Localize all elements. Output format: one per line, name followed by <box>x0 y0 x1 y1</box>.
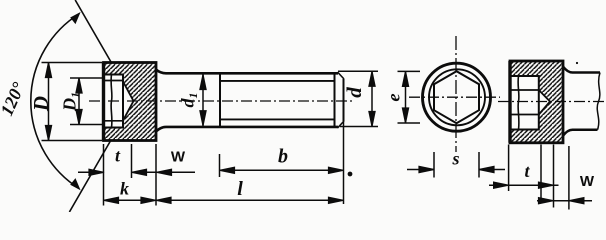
svg-text:l: l <box>237 178 243 200</box>
svg-text:t: t <box>524 161 530 181</box>
svg-text:d: d <box>342 87 366 98</box>
svg-text:W: W <box>580 173 595 190</box>
svg-text:d1: d1 <box>178 93 201 108</box>
svg-text:b: b <box>278 146 288 168</box>
svg-text:s: s <box>451 149 459 169</box>
svg-text:D: D <box>29 96 53 112</box>
svg-text:k: k <box>120 179 129 199</box>
svg-text:e: e <box>384 94 404 102</box>
svg-text:t: t <box>115 146 121 166</box>
svg-text:120°: 120° <box>0 79 29 119</box>
svg-text:D1: D1 <box>60 92 83 112</box>
svg-text:W: W <box>171 149 186 166</box>
